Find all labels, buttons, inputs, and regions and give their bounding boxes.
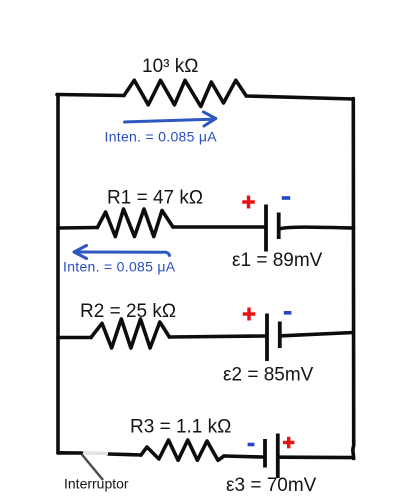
- current arrow branch1 (left-pointing): [78, 252, 170, 256]
- wire branch1 battery to right rail: [281, 227, 354, 228]
- battery E3 long plate (+): [276, 434, 280, 479]
- resistor R2 zigzag: [91, 319, 169, 348]
- wire branch3 to battery: [224, 456, 263, 457]
- wire branch2 left: [58, 336, 91, 340]
- wire branch2 battery to right rail: [282, 333, 354, 336]
- svg-text:10³ kΩ: 10³ kΩ: [142, 56, 198, 77]
- resistor R1 zigzag: [97, 209, 173, 237]
- svg-text:ε3 = 70mV: ε3 = 70mV: [226, 475, 317, 496]
- current arrow top (right-pointing): [125, 119, 212, 122]
- wire top left segment: [57, 95, 124, 96]
- wire branch2 to battery: [169, 336, 265, 337]
- svg-text:ε1 = 89mV: ε1 = 89mV: [232, 250, 323, 271]
- wire branch3 battery to right rail: [280, 455, 354, 459]
- wire bottom after switch: [108, 454, 141, 455]
- battery E1 long plate (+): [264, 205, 268, 252]
- minus sign E3: [248, 443, 255, 447]
- wire bottom left corner segment: [58, 451, 82, 455]
- minus sign E1: [282, 196, 290, 200]
- wire branch1 to battery: [173, 225, 264, 229]
- svg-text:R2 = 25 kΩ: R2 = 25 kΩ: [80, 301, 176, 322]
- plus sign E2: [243, 308, 256, 321]
- svg-text:ε2 = 85mV: ε2 = 85mV: [223, 365, 314, 386]
- resistor 10^3 kOhm zigzag: [124, 80, 246, 106]
- wire left rail: [56, 95, 60, 454]
- battery E1 short plate (-): [277, 213, 281, 240]
- plus sign E3: [283, 437, 294, 449]
- svg-text:Inten. = 0.085 μA: Inten. = 0.085 μA: [105, 129, 218, 145]
- svg-text:R3 = 1.1 kΩ: R3 = 1.1 kΩ: [130, 417, 231, 438]
- svg-text:Interruptor: Interruptor: [64, 476, 129, 492]
- svg-text:Inten. = 0.085 μA: Inten. = 0.085 μA: [63, 259, 176, 275]
- battery E2 short plate (-): [278, 322, 282, 349]
- switch open segment (faded): [83, 451, 108, 455]
- minus sign E2: [284, 311, 292, 315]
- wire top right segment: [246, 96, 353, 99]
- battery E3 short plate (-): [263, 439, 267, 468]
- battery E2 long plate (+): [265, 314, 269, 362]
- plus sign E1: [242, 196, 255, 209]
- wire branch1 left: [58, 226, 97, 230]
- interruptor leader line: [82, 454, 104, 480]
- svg-text:R1 = 47 kΩ: R1 = 47 kΩ: [107, 188, 203, 209]
- wire right rail: [351, 99, 356, 459]
- resistor R3 zigzag: [141, 440, 224, 460]
